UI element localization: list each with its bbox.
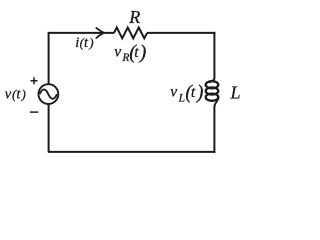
current arrow i(t) (96, 28, 104, 38)
wire bottom (48, 151, 216, 153)
wire left vertical upper (48, 32, 50, 84)
svg-text:vR(t): vR(t) (114, 41, 146, 64)
svg-text:L: L (230, 82, 241, 102)
wire top-right segment (147, 32, 215, 34)
source sine wave (40, 89, 57, 98)
svg-text:R: R (128, 7, 140, 27)
svg-text:vL(t): vL(t) (170, 83, 203, 105)
minus polarity mark (30, 111, 38, 113)
svg-text:v(t): v(t) (5, 86, 26, 102)
source v(t) circle (39, 84, 59, 104)
svg-text:i(t): i(t) (75, 35, 93, 51)
wire left vertical lower (48, 104, 50, 152)
plus polarity mark (31, 77, 38, 84)
wire right vertical lower (213, 106, 215, 153)
resistor R (114, 28, 147, 39)
wire right vertical upper (213, 32, 215, 79)
wire top-left segment (48, 32, 114, 34)
inductor L coil (209, 77, 214, 83)
